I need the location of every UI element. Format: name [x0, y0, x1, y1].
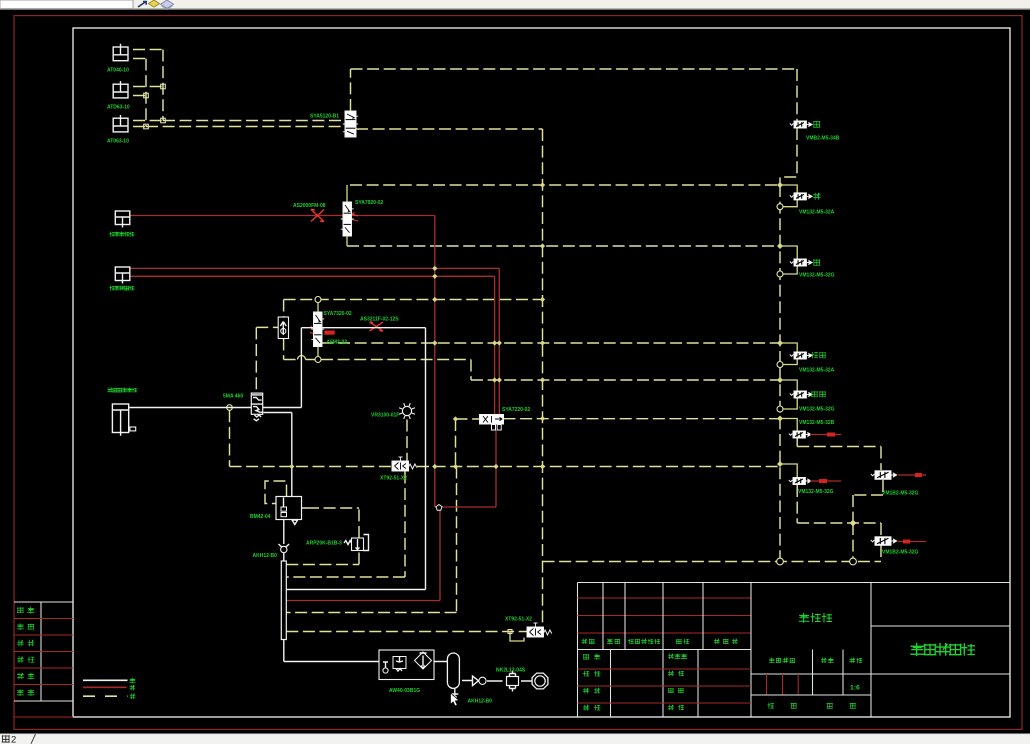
- air receiver tank: [447, 653, 459, 688]
- wire: SYA7220 left riser x=455.5: [455, 419, 457, 467]
- svg-text:VM1B2-M5-32G: VM1B2-M5-32G: [882, 550, 919, 556]
- svg-text:A5M2-02: A5M2-02: [327, 340, 348, 346]
- pressure switch XT92-51-X2 (upper): [392, 461, 409, 471]
- svg-text:SYA7320-02: SYA7320-02: [324, 311, 352, 317]
- wire: right column main vertical x=780: [779, 185, 781, 562]
- wire: SYA7320 leads: [317, 300, 319, 360]
- wire: below XT92 x=405 down to y=577: [286, 472, 405, 578]
- red frame bottom segment under table: [14, 716, 73, 718]
- wire: bus y=185: [350, 184, 780, 186]
- white wire: BM42 down through AKH12 check: [283, 520, 285, 562]
- wire: stub to check valve from x=256: [256, 327, 278, 392]
- drawing title panel: [871, 626, 1010, 674]
- wire: SYA5120 top riser and top bus y=69: [351, 69, 798, 111]
- white wire: x=425.5 drop and y=589.5 to pipe: [286, 328, 425, 590]
- svg-text:BM42-04: BM42-04: [250, 514, 271, 520]
- valve 5MA-460: [251, 393, 262, 414]
- valve V8 VM132-M5-32G: [777, 461, 783, 467]
- white wire: y=327.7 through SYA7320 to x=425.5: [301, 327, 425, 329]
- signer row 审核/会签: [583, 688, 588, 693]
- wire: bus y=419 SYA7220: [456, 418, 781, 420]
- node circles bottom bus: [777, 558, 784, 565]
- signer row 工艺/日期: [583, 705, 588, 710]
- red arrows at SYA7920: [352, 212, 358, 221]
- wire: bottom bus y=561.5 right column: [543, 561, 882, 563]
- svg-text:VM132-M5-32A: VM132-M5-32A: [799, 368, 835, 374]
- valve SYA7920-02: [343, 202, 352, 236]
- white wire: pipe to AW40: [284, 640, 379, 662]
- svg-text:5MA 460: 5MA 460: [223, 394, 243, 400]
- svg-text:AT063-10: AT063-10: [107, 139, 129, 145]
- wire: check valve drop x=283.6: [283, 300, 285, 360]
- valve V2 VM132-M5-32A: [777, 182, 783, 188]
- layout tab label 局2: [2, 736, 9, 742]
- wire: right column drop x=797: [780, 69, 797, 185]
- wire: bus y=564.5 and riser x=359 through ARP20K: [286, 508, 359, 565]
- junction diamonds on buses: [540, 182, 545, 187]
- wire: bus y=299.5: [284, 299, 543, 301]
- layer combo box: [0, 0, 133, 9]
- wire: SYA7320 bottom bus to x=471 down to y=380: [321, 360, 780, 381]
- sheet count row 共张第张: [768, 703, 774, 708]
- revision header labels: [582, 639, 587, 644]
- valve V3 VM132-M5-32G: [777, 243, 783, 249]
- cylinder AT063-10: [113, 118, 128, 132]
- svg-text:ARP20K-B1B-3: ARP20K-B1B-3: [306, 541, 342, 547]
- svg-text:AS3211F-02-12S: AS3211F-02-12S: [360, 317, 399, 323]
- toolbar icon: make layer current (arrow+yellow diamond): [138, 2, 146, 8]
- wire: star drop to XT92: [406, 420, 408, 462]
- wire: drop from node x=229.5 to bus y=466.5: [229, 410, 231, 466]
- table label 标准: [17, 673, 23, 679]
- svg-text:VM132-M5-32A: VM132-M5-32A: [799, 210, 835, 216]
- wire: bus y=466.5 (right part): [417, 466, 780, 468]
- check valve AKH12-B0 (upper): [279, 544, 290, 549]
- node circle on 5MA line: [227, 405, 233, 411]
- regulator block BM42-04: [276, 497, 302, 520]
- valve V4 VM132-M5-32A: [777, 340, 783, 346]
- node circles SYA7320: [315, 297, 321, 303]
- svg-text:AT040-10: AT040-10: [107, 68, 129, 74]
- wire: x=456.5 drop to y=612.5: [286, 467, 456, 613]
- svg-text:XT92-51-X2: XT92-51-X2: [505, 617, 532, 623]
- svg-text:VM132-M5-32B: VM132-M5-32B: [799, 420, 835, 426]
- valve SYA7320-02: [314, 312, 323, 347]
- legend white solid line: [83, 679, 128, 681]
- drawing title 气动传动图: [911, 644, 924, 656]
- red wire: head cyl 1 to SYA7920 and x=434.8 drop: [129, 216, 435, 508]
- lift cylinder: [112, 404, 128, 433]
- valve SYA5120-B1: [345, 111, 356, 137]
- check valve in dashed line: [278, 317, 288, 339]
- svg-text:2: 2: [11, 735, 16, 744]
- svg-text:SYA7920-02: SYA7920-02: [355, 200, 383, 206]
- legend red solid line: [83, 686, 127, 688]
- svg-text:SYA5120-B1: SYA5120-B1: [310, 114, 339, 120]
- valve V1 VMB2-M5-34B: [790, 124, 794, 126]
- cylinder ATD63-10: [113, 84, 128, 98]
- air source (double circle): [532, 673, 548, 689]
- wire: AT bus to SYA5120 valve: [146, 121, 345, 127]
- table label 工艺: [17, 657, 23, 663]
- white wire: 5MA lower port to BM42: [264, 413, 292, 497]
- svg-text:VM132-M5-32G: VM132-M5-32G: [799, 273, 835, 279]
- wire: bus y=343 from SYA7320 right: [322, 342, 781, 344]
- revision red ticks: [767, 674, 799, 695]
- toolbar icon: layers (lavender diamond): [161, 0, 174, 8]
- wire: SYA5120 right to x=542 drop: [356, 129, 543, 626]
- cylinder AT040-10: [113, 47, 128, 61]
- svg-text:SYA7220-02: SYA7220-02: [502, 407, 530, 413]
- svg-text:VR3100-01F: VR3100-01F: [371, 413, 399, 419]
- wire: BM42 dashed loop: [265, 481, 287, 504]
- wire: AT cylinder port stubs: [133, 50, 163, 127]
- red arrows at SYA7320: [310, 326, 315, 334]
- white wire: AW40 to tank to source: [434, 662, 532, 682]
- svg-text:AW40-03B1G: AW40-03B1G: [389, 688, 420, 694]
- svg-text:NK2L12-04S: NK2L12-04S: [496, 668, 526, 674]
- wire: XT92-2 bottom hook: [510, 632, 524, 642]
- part-name panel 气阀图: [799, 613, 808, 622]
- red wire: head cyl 2 pair: [129, 268, 499, 414]
- title block outline: [578, 583, 1011, 718]
- wire: BM42 to riser y=508: [307, 507, 359, 509]
- svg-text:AS2000FM-08: AS2000FM-08: [293, 203, 326, 209]
- valve V9 VM1B2-M5-32G: [880, 523, 882, 562]
- red muffler block A5M2-02: [324, 331, 334, 335]
- valve SYA7220-02 (horizontal): [480, 415, 504, 425]
- title block upper revision grid: [578, 598, 752, 633]
- title block signer grid: [611, 650, 699, 718]
- white supply pipe (double line): [281, 561, 286, 640]
- svg-text:1:6: 1:6: [850, 685, 860, 692]
- signer row 制图/审定: [583, 671, 589, 676]
- wire: AT cylinder bus verticals: [146, 50, 163, 127]
- relief valve ARP20K-B1B-3: [344, 541, 352, 545]
- svg-text:XT92-51-X2: XT92-51-X2: [380, 476, 407, 482]
- pressure switch XT92-51-X2 (lower): [527, 627, 544, 637]
- valve V6 VM132-M5-32B: [777, 416, 783, 422]
- filter/regulator unit AW40-03B1G: [379, 650, 434, 680]
- red node pentagon: [436, 505, 442, 511]
- red X mark AS3211F: [370, 322, 384, 331]
- wire: SYA7920 leads: [346, 185, 348, 246]
- table label 校对: [17, 624, 23, 630]
- legend yellow dashed line: [83, 695, 128, 697]
- scale/weight grid: [751, 583, 871, 718]
- valve V5 VM132-M5-32G: [777, 377, 783, 383]
- svg-text:VM1B2-M5-32G: VM1B2-M5-32G: [882, 491, 919, 497]
- head clamp cylinder 1: [115, 211, 130, 225]
- signer row 设计/标准化: [584, 654, 589, 659]
- quick coupling NK2L12-04S: [507, 677, 519, 686]
- white wire: lift cyl to 5MA to x=301 riser: [130, 328, 302, 408]
- check valve AKH12-B0 (lower): [473, 676, 479, 686]
- red wire: SYA7220 bottom to supply: [286, 430, 496, 601]
- wire: bus y=246 from SYA7920: [347, 245, 780, 247]
- status bar: [0, 734, 1030, 744]
- svg-text:VMB2-M5-34B: VMB2-M5-34B: [806, 136, 840, 142]
- toolbar background: [0, 0, 1030, 10]
- svg-text:ATD63-10: ATD63-10: [107, 105, 130, 111]
- wire: bus y=466.5 (left part to XT92): [230, 466, 393, 468]
- node squares on AT bus: [144, 93, 149, 98]
- svg-text:VM132-M5-32G: VM132-M5-32G: [798, 489, 834, 495]
- svg-text:AKH12-B0: AKH12-B0: [253, 553, 278, 559]
- table label 设计: [18, 608, 24, 613]
- svg-text:VM132-M5-32G: VM132-M5-32G: [799, 407, 835, 413]
- table label 批准: [17, 690, 23, 696]
- wire: bus y=631.5 to XT92-2: [286, 631, 527, 633]
- red X mark AS2000FM-08: [311, 210, 324, 222]
- svg-text:AKH12-B0: AKH12-B0: [468, 699, 493, 705]
- wire: y=359.5 with hop over white line: [284, 359, 315, 361]
- head clamp cylinder 2: [115, 267, 130, 281]
- valve V7 VM1B2-M5-32G: [871, 474, 875, 476]
- signature table left: [14, 602, 73, 701]
- star symbol VR3100: [402, 406, 411, 415]
- table label 审核: [17, 640, 23, 646]
- mouse cursor: [451, 693, 459, 706]
